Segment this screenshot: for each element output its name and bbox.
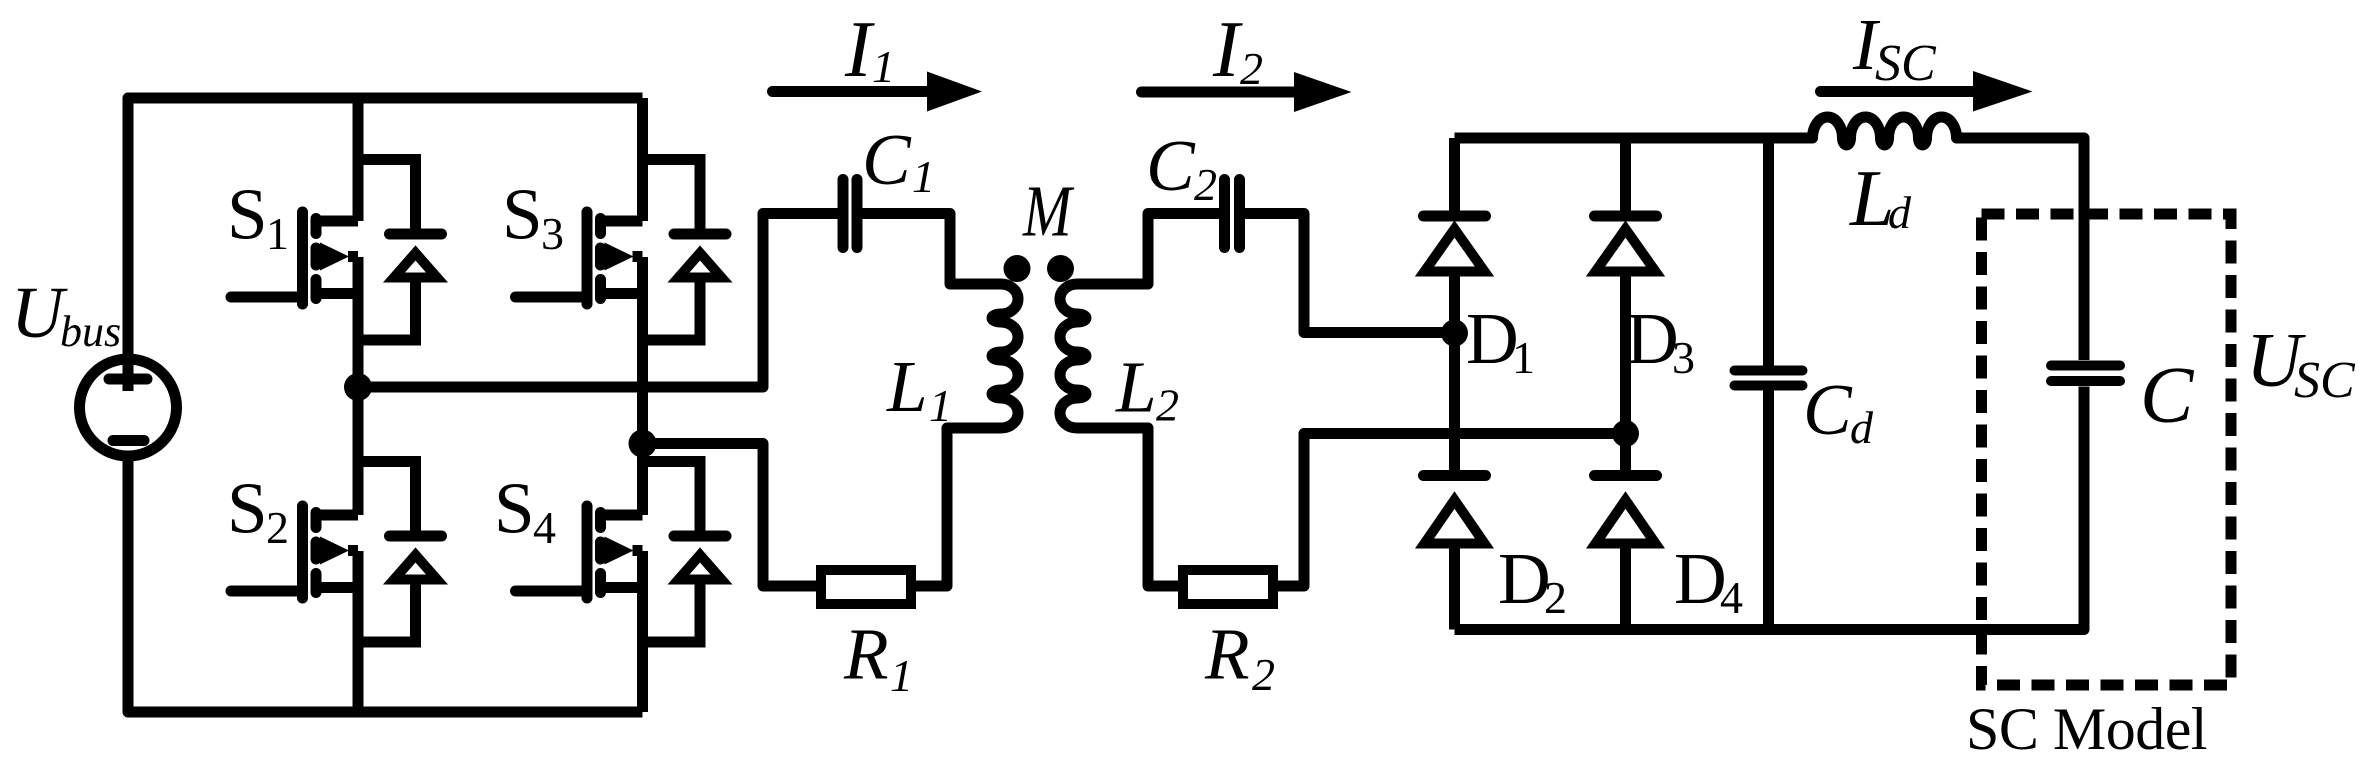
svg-text:S: S xyxy=(502,174,543,255)
svg-text:3: 3 xyxy=(541,208,564,259)
svg-text:1: 1 xyxy=(929,380,952,431)
svg-text:S: S xyxy=(227,174,268,255)
svg-text:S: S xyxy=(494,468,535,549)
svg-text:C: C xyxy=(1146,125,1196,206)
svg-text:2: 2 xyxy=(1544,572,1567,623)
svg-text:1: 1 xyxy=(890,650,913,701)
svg-text:2: 2 xyxy=(1240,43,1263,94)
svg-text:SC Model: SC Model xyxy=(1966,696,2207,762)
svg-text:d: d xyxy=(1888,187,1912,238)
svg-text:D: D xyxy=(1626,298,1679,379)
svg-text:1: 1 xyxy=(872,41,895,92)
svg-text:C: C xyxy=(2140,352,2195,440)
svg-text:4: 4 xyxy=(533,502,556,553)
svg-text:R: R xyxy=(843,614,889,695)
svg-text:SC: SC xyxy=(2294,352,2356,409)
svg-text:4: 4 xyxy=(1720,572,1743,623)
svg-text:1: 1 xyxy=(266,208,289,259)
svg-text:L: L xyxy=(1115,347,1157,428)
svg-text:R: R xyxy=(1204,614,1250,695)
svg-text:D: D xyxy=(1498,538,1551,619)
svg-text:D: D xyxy=(1466,298,1519,379)
svg-text:C: C xyxy=(862,119,912,200)
svg-text:1: 1 xyxy=(1512,332,1535,383)
svg-text:L: L xyxy=(886,346,928,427)
svg-text:2: 2 xyxy=(1252,649,1275,700)
svg-text:2: 2 xyxy=(1156,380,1179,431)
svg-text:d: d xyxy=(1850,402,1874,453)
svg-text:2: 2 xyxy=(266,502,289,553)
svg-text:bus: bus xyxy=(60,307,121,356)
svg-text:3: 3 xyxy=(1672,332,1695,383)
svg-text:D: D xyxy=(1674,538,1727,619)
svg-text:1: 1 xyxy=(912,151,935,202)
svg-text:I: I xyxy=(844,6,875,94)
svg-text:SC: SC xyxy=(1875,35,1937,92)
svg-text:S: S xyxy=(227,468,268,549)
svg-text:I: I xyxy=(1212,6,1243,94)
svg-text:M: M xyxy=(1022,171,1075,252)
svg-text:2: 2 xyxy=(1194,159,1217,210)
svg-text:C: C xyxy=(1803,369,1853,450)
